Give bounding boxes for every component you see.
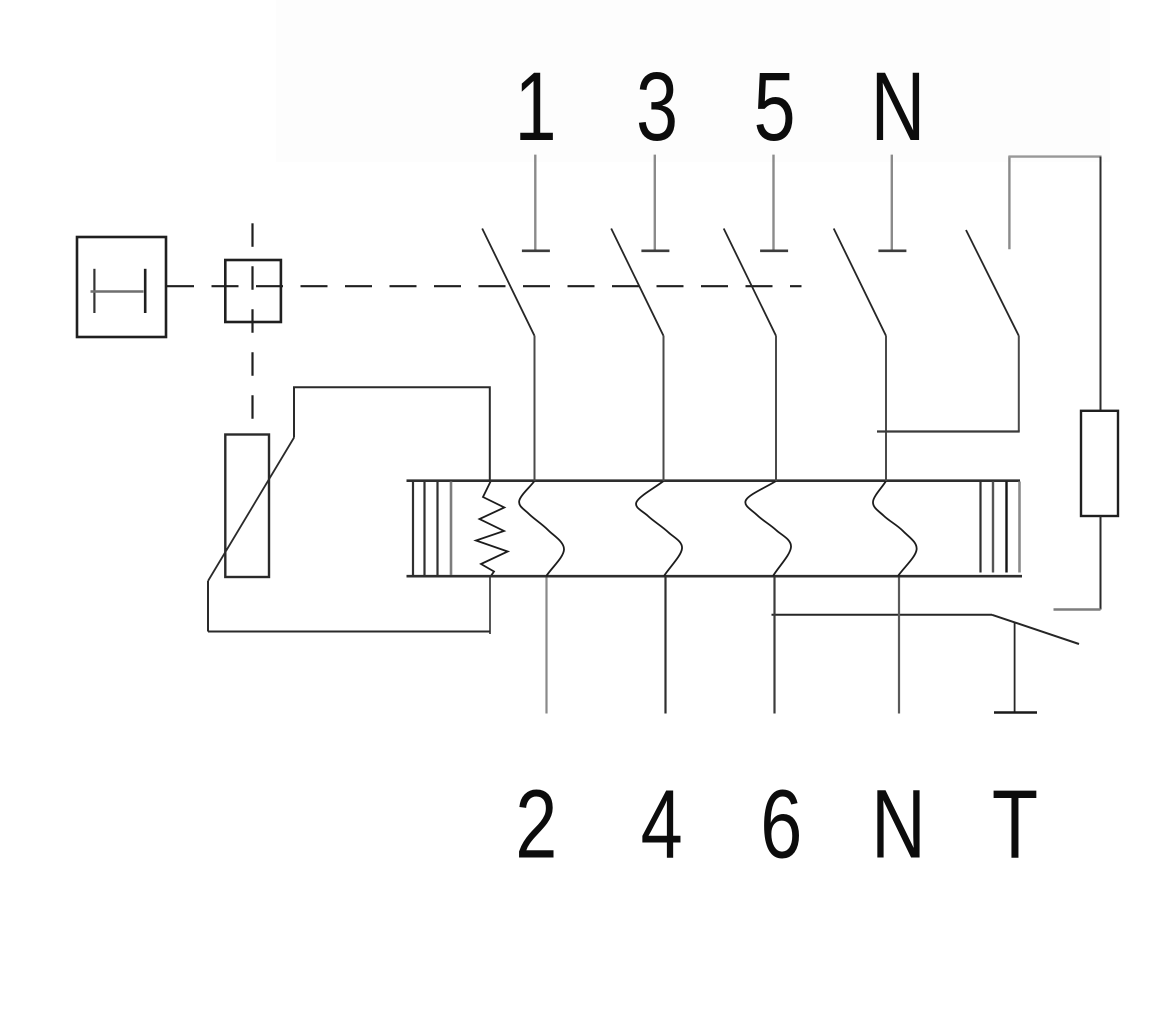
- switch blade pole 1: [482, 229, 534, 336]
- terminal lead 6 (bottom): [773, 578, 775, 714]
- phase L3 winding pass: [745, 481, 791, 576]
- wire test-pole drop: [1018, 336, 1020, 432]
- test button blade: [992, 615, 1079, 644]
- terminal lead 5 (top): [772, 155, 774, 250]
- terminal lead N (bottom): [898, 578, 900, 714]
- svg-text:T: T: [992, 771, 1038, 879]
- svg-text:N: N: [871, 771, 926, 879]
- svg-text:5: 5: [753, 53, 795, 161]
- phase L1 winding pass: [519, 481, 564, 576]
- wire blade-to-core pole N: [885, 336, 887, 481]
- svg-text:N: N: [871, 53, 926, 161]
- coupling box K1: [225, 260, 281, 322]
- svg-text:6: 6: [760, 771, 802, 879]
- sensing winding zigzag: [476, 481, 508, 577]
- switch blade pole 2: [611, 229, 663, 336]
- dashed mechanical link horizontal: [167, 285, 802, 287]
- svg-text:4: 4: [641, 771, 683, 879]
- fixed contact tick 5: [760, 250, 788, 253]
- toroid core top line: [407, 479, 1021, 482]
- fixed contact tick N: [878, 250, 906, 253]
- core right hatch: [981, 482, 1020, 573]
- dashed mechanical link vertical: [251, 223, 253, 433]
- terminal lead 2 (bottom): [545, 578, 547, 714]
- wire blade-to-core pole 2: [663, 336, 665, 481]
- svg-text:2: 2: [515, 771, 557, 879]
- neutral winding pass: [873, 481, 917, 576]
- test-button box U1: [77, 237, 166, 337]
- terminal lead T: [1014, 623, 1016, 712]
- terminal tick T: [994, 711, 1037, 714]
- fixed contact tick 3: [641, 250, 669, 253]
- core left hatch: [413, 482, 451, 576]
- relay armature diagonal: [208, 438, 294, 581]
- wire resistor bottom lead: [1100, 516, 1102, 610]
- terminal lead 1 (top): [534, 155, 536, 250]
- scan background band: [276, 0, 1110, 162]
- switch blade test pole: [966, 230, 1019, 336]
- wire resistor hook: [1054, 608, 1101, 610]
- switch blade pole N: [834, 229, 886, 336]
- toroid core bottom line: [407, 575, 1023, 578]
- wire test resistor top lead: [1100, 157, 1102, 411]
- switch blade pole 3: [724, 229, 776, 336]
- test-button symbol inside U1: [91, 269, 146, 313]
- phase L2 winding pass: [636, 481, 682, 576]
- wire pole3 to test button: [772, 614, 993, 616]
- wire relay to sensing winding: [294, 387, 490, 480]
- wire blade-to-core pole 3: [775, 336, 777, 481]
- test resistor R: [1081, 411, 1118, 516]
- wire top-right feed horizontal: [1008, 155, 1101, 157]
- terminal lead 3 (top): [654, 155, 656, 250]
- relay coil A1: [225, 435, 269, 578]
- svg-text:3: 3: [636, 53, 678, 161]
- terminal lead 4 (bottom): [664, 578, 666, 714]
- wire test-pole to neutral junction: [877, 430, 1020, 432]
- wire blade-to-core pole 1: [534, 336, 536, 481]
- terminal lead N (top): [891, 155, 893, 250]
- svg-text:1: 1: [514, 53, 556, 161]
- test feed lead (top right): [1008, 156, 1010, 249]
- fixed contact tick 1: [522, 250, 550, 253]
- wire zigzag bottom loop: [489, 577, 491, 635]
